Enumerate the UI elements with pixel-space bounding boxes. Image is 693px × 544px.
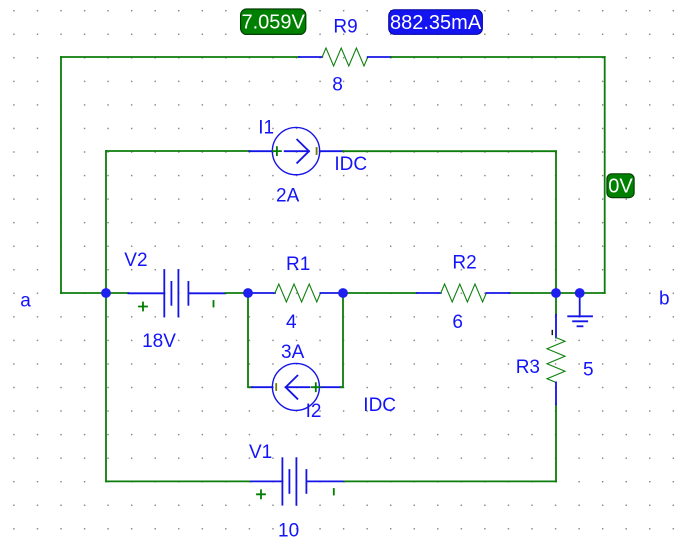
svg-text:10: 10 <box>278 521 299 542</box>
ground symbol <box>568 293 592 326</box>
wire I2 branch left vertical <box>248 293 252 387</box>
wire outer-left vertical <box>60 57 62 293</box>
wire I1 branch right vertical <box>555 151 557 293</box>
node junction ground <box>575 288 585 298</box>
resistor R9 <box>299 48 391 66</box>
svg-text:I2: I2 <box>306 401 322 422</box>
svg-text:I1: I1 <box>258 117 274 138</box>
wire right horizontal to node b row <box>510 292 605 294</box>
polarity tick near R3 <box>551 331 553 335</box>
svg-text:0V: 0V <box>608 176 633 198</box>
resistor R3 <box>547 315 565 405</box>
voltage probe label 0V <box>607 174 634 198</box>
wire bottom left horizontal <box>106 480 251 482</box>
wire top right segment <box>391 56 605 58</box>
node junction V2-R1 <box>243 288 253 298</box>
svg-text:IDC: IDC <box>334 154 367 175</box>
wire I1 branch right horizontal <box>343 150 556 152</box>
svg-text:7.059V: 7.059V <box>242 12 306 34</box>
svg-text:18V: 18V <box>142 331 176 352</box>
node junction at a <box>101 288 111 298</box>
svg-text:R3: R3 <box>516 357 540 378</box>
wire I1 branch left vertical <box>105 151 107 293</box>
svg-text:R9: R9 <box>333 17 357 38</box>
wire node a row <box>61 292 128 294</box>
svg-text:8: 8 <box>332 74 343 95</box>
wire I1 branch left horizontal <box>106 150 249 152</box>
svg-text:V2: V2 <box>124 250 147 271</box>
wire node b to R3 <box>555 293 557 315</box>
svg-text:2A: 2A <box>276 186 300 207</box>
svg-text:V1: V1 <box>249 442 272 463</box>
current source I1 <box>249 127 343 174</box>
wire outer-right vertical <box>604 57 606 293</box>
voltage source V2 <box>128 270 225 317</box>
svg-text:b: b <box>659 289 670 310</box>
voltage source V1 <box>251 458 344 505</box>
svg-text:5: 5 <box>583 360 594 381</box>
svg-text:6: 6 <box>452 312 463 333</box>
current source I2 <box>252 363 341 410</box>
wire bottom right vertical to R3 <box>555 404 557 481</box>
wire top left segment <box>61 56 299 58</box>
svg-text:IDC: IDC <box>363 395 396 416</box>
svg-text:R2: R2 <box>452 252 476 273</box>
wire I2 branch right vertical <box>341 293 343 387</box>
node junction R2-R3 <box>551 288 561 298</box>
svg-text:882.35mA: 882.35mA <box>390 12 482 34</box>
node junction R1-R2 <box>338 288 348 298</box>
wire bottom branch left vertical <box>105 293 107 481</box>
svg-text:R1: R1 <box>286 254 310 275</box>
svg-text:a: a <box>20 290 31 311</box>
current probe label 882.35mA <box>389 10 483 35</box>
voltage probe label 7.059V <box>241 9 306 34</box>
wire R1 to R2 <box>343 292 417 294</box>
resistor R1 <box>248 284 343 302</box>
resistor R2 <box>417 284 510 302</box>
wire bottom right horizontal <box>344 480 556 482</box>
wire V2 to R1 node <box>226 292 249 294</box>
svg-text:4: 4 <box>286 312 297 333</box>
svg-text:3A: 3A <box>281 342 305 363</box>
